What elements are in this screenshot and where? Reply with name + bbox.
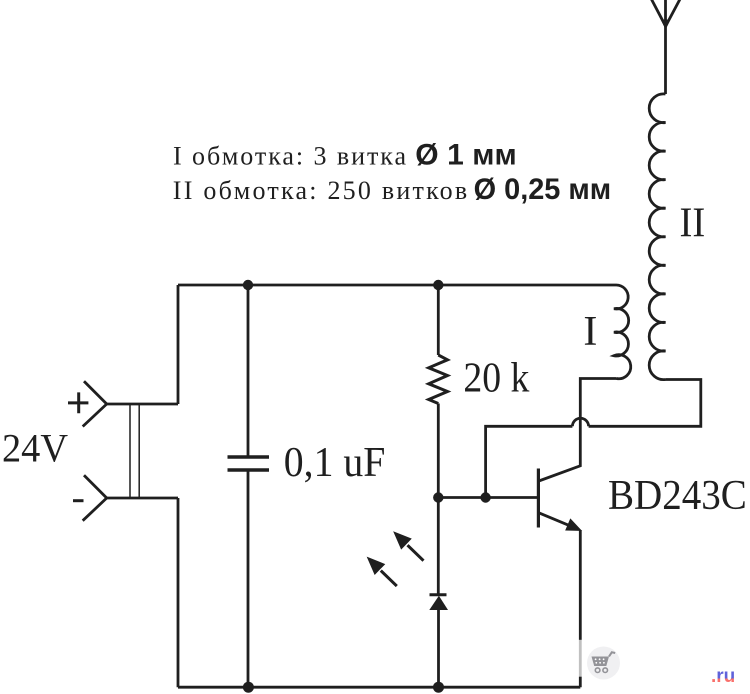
- transistor Q1 BD243C base bar: [537, 469, 540, 528]
- bottom rail wire: [178, 686, 580, 689]
- wire - terminal: [107, 497, 178, 500]
- svg-text:I: I: [583, 309, 597, 355]
- connector double lines: [130, 403, 139, 499]
- svg-text:I обмотка: 3 витка: I обмотка: 3 витка: [173, 142, 406, 171]
- watermark halo over emitter wire: [576, 640, 585, 677]
- left rail upper wire: [177, 285, 180, 404]
- coil II (secondary winding L2): [649, 94, 665, 380]
- watermark disc: [587, 647, 620, 680]
- wire + terminal: [107, 403, 178, 406]
- antenna: [651, 0, 681, 94]
- svg-text:Ø 0,25 мм: Ø 0,25 мм: [474, 173, 612, 206]
- wire base junction to transistor: [438, 496, 537, 499]
- capacitor C1 bottom lead: [247, 470, 250, 687]
- top rail wire: [178, 284, 616, 287]
- junction dot top capacitor: [243, 280, 253, 290]
- plus sign: [68, 392, 88, 413]
- svg-text:BD243C: BD243C: [608, 473, 747, 519]
- LED arrow 2: [381, 571, 397, 587]
- minus sign: [73, 499, 84, 502]
- wire coil I bottom to collector: [539, 379, 617, 482]
- wire from hop to base junction: [486, 426, 573, 497]
- capacitor C1 top lead: [247, 285, 250, 457]
- LED D1 cathode bar: [430, 593, 447, 596]
- watermark cart icon: [592, 652, 616, 672]
- LED D1 top lead: [437, 498, 440, 595]
- junction dot bottom capacitor: [243, 682, 254, 693]
- svg-text:Ø 1 мм: Ø 1 мм: [415, 139, 516, 172]
- - terminal chevron: [83, 475, 107, 520]
- watermark .ru logo: [711, 667, 749, 687]
- wire coil II bottom to right corner down to base net: [589, 380, 701, 427]
- resistor R1 top lead: [437, 285, 440, 355]
- junction dot base-coil: [480, 492, 490, 502]
- resistor R1 bottom lead: [437, 404, 440, 498]
- resistor R1 zigzag: [429, 355, 448, 404]
- wire emitter down to bottom rail: [579, 530, 582, 687]
- svg-text:0,1 uF: 0,1 uF: [284, 440, 386, 486]
- svg-text:20 k: 20 k: [463, 355, 529, 401]
- junction dot top resistor: [433, 280, 443, 290]
- LED arrow 1: [408, 545, 424, 561]
- junction dot base-resistor: [433, 492, 443, 502]
- LED D1 bottom lead: [437, 610, 440, 687]
- svg-text:24V: 24V: [2, 425, 68, 470]
- coil I (primary winding L1): [614, 285, 631, 379]
- capacitor C1 plates: [228, 457, 270, 470]
- transistor emitter with arrow: [539, 513, 570, 526]
- + terminal chevron: [83, 381, 107, 426]
- junction dot bottom LED: [433, 682, 444, 693]
- LED D1 triangle: [429, 596, 448, 610]
- svg-text:II: II: [680, 200, 706, 246]
- wire hop over collector wire: [572, 418, 588, 426]
- left rail lower wire: [177, 498, 180, 687]
- svg-text:II обмотка: 250 витков: II обмотка: 250 витков: [173, 176, 467, 205]
